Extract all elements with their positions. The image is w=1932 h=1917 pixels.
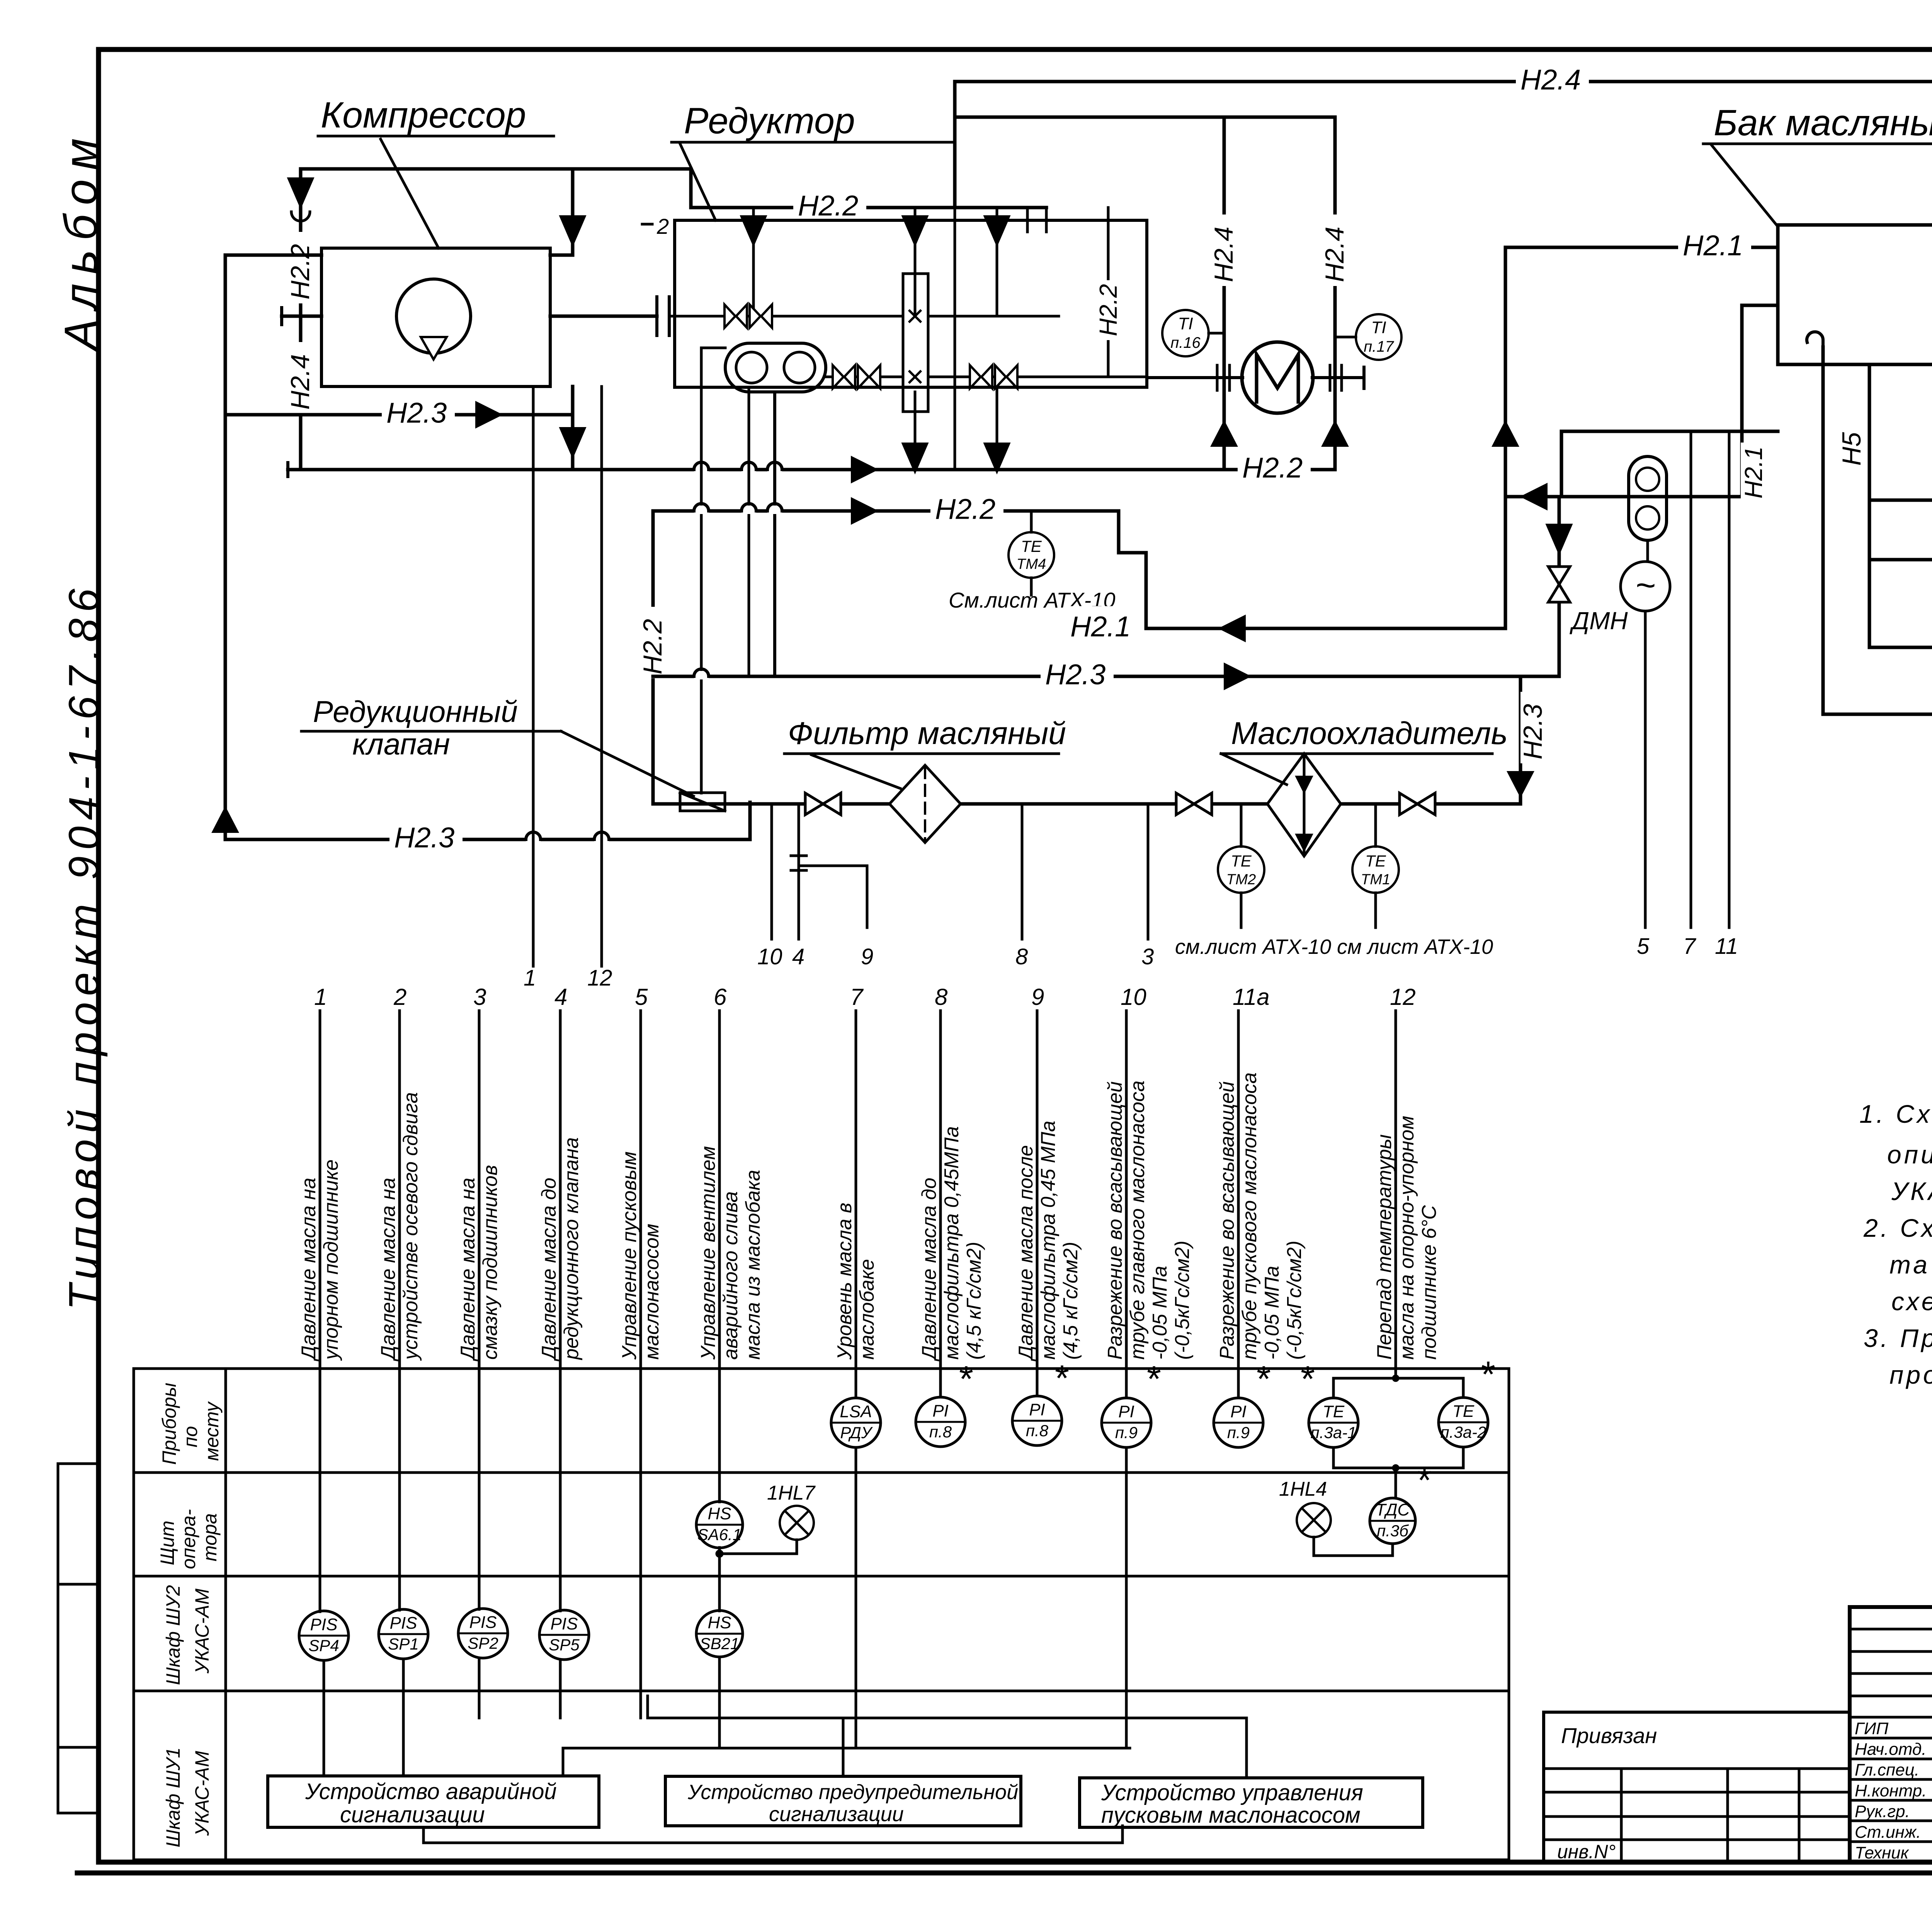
- lamp 1HL4: [1297, 1503, 1331, 1537]
- svg-text:Шкаф ШУ2: Шкаф ШУ2: [162, 1585, 184, 1685]
- label H2.3 rotated drop: [1518, 692, 1548, 763]
- svg-text:Н2.2: Н2.2: [798, 190, 858, 222]
- wire reduction valve pilot line: [700, 348, 703, 793]
- flow arrow up on left return riser: [213, 809, 237, 832]
- svg-text:Типовой проект 904-1-67.86: Типовой проект 904-1-67.86: [60, 582, 108, 1310]
- pipe H2.2 long line under machines: [288, 468, 1335, 472]
- svg-text:5: 5: [635, 984, 648, 1010]
- svg-text:см лист АТХ-10: см лист АТХ-10: [1337, 935, 1493, 958]
- svg-text:Н5: Н5: [1837, 432, 1866, 466]
- svg-text:пусковым маслонасосом: пусковым маслонасосом: [1101, 1803, 1361, 1828]
- svg-text:LSA: LSA: [840, 1402, 872, 1421]
- column 10 description line 1: [1104, 1081, 1126, 1360]
- leader Фильтр масляный: [811, 755, 900, 788]
- margin text Типовой проект 904-1-67.86: [60, 582, 108, 1310]
- lamp 1HL7: [780, 1506, 814, 1540]
- column 12 description line 1: [1373, 1134, 1396, 1360]
- column 6 description line 3: [742, 1170, 764, 1360]
- svg-text:SВ21: SВ21: [700, 1634, 740, 1653]
- svg-text:п.8: п.8: [1026, 1422, 1049, 1440]
- signal drop 10: [770, 804, 773, 939]
- svg-text:(-0,5кГс/см2): (-0,5кГс/см2): [1283, 1241, 1306, 1360]
- signal column wire x2915: [1125, 1011, 1128, 1398]
- leader Бак масляный: [1712, 145, 1777, 226]
- pipe H5 main: [1869, 558, 1932, 562]
- svg-text:Давление масла на: Давление масла на: [377, 1178, 400, 1362]
- svg-text:3: 3: [473, 984, 486, 1010]
- svg-text:Н2.4: Н2.4: [1209, 226, 1238, 282]
- flow arrow H2.3 header: [1225, 664, 1249, 688]
- svg-text:п.16: п.16: [1170, 334, 1201, 351]
- instrument PI p.9 (2): [1214, 1398, 1263, 1447]
- title block signature row: [1850, 1758, 1932, 1760]
- svg-text:4: 4: [792, 944, 804, 969]
- svg-text:Давление масла после: Давление масла после: [1015, 1145, 1037, 1362]
- pipe H2.3 from left loop: [225, 413, 573, 417]
- svg-text:Н2.3: Н2.3: [394, 822, 454, 854]
- frame bottom double line: [77, 1871, 1932, 1876]
- column 12 description line 3: [1418, 1205, 1440, 1360]
- wire from suction to tank line: [1560, 431, 1563, 497]
- svg-text:Устройство управления: Устройство управления: [1101, 1780, 1363, 1805]
- svg-text:маслофильтра 0,45 МПа: маслофильтра 0,45 МПа: [1037, 1121, 1060, 1360]
- svg-text:Н2.2: Н2.2: [1094, 284, 1122, 336]
- title block signature row: [1850, 1716, 1932, 1719]
- pipe stub into tank lower: [1742, 304, 1778, 307]
- svg-text:Нач.отд.: Нач.отд.: [1855, 1740, 1926, 1759]
- svg-text:УКАС-АМ: УКАС-АМ: [191, 1588, 213, 1674]
- svg-text:*: *: [1147, 1359, 1161, 1399]
- svg-text:маслофильтра 0,45МПа: маслофильтра 0,45МПа: [940, 1126, 963, 1360]
- svg-text:сигнализации: сигнализации: [340, 1802, 485, 1827]
- flow arrow H2.1 riser: [1493, 422, 1517, 446]
- left margin small boxes: [58, 1464, 99, 1584]
- cooler internal arrow 2: [1297, 835, 1311, 850]
- svg-text:*: *: [1417, 1460, 1432, 1501]
- signal column wire x1862: [718, 1011, 721, 1502]
- svg-text:Альбом: Альбом: [55, 129, 107, 352]
- motor shaft: [1147, 376, 1243, 379]
- table right edge: [1508, 1369, 1510, 1860]
- svg-text:Маслоохладитель: Маслоохладитель: [1231, 716, 1508, 751]
- svg-text:12: 12: [587, 965, 612, 991]
- label H2.2 rotated drop: [638, 607, 668, 678]
- instrument TE TM4: [1030, 511, 1033, 532]
- svg-text:Устройство аварийной: Устройство аварийной: [305, 1779, 557, 1804]
- underline Фильтр масляный: [784, 752, 1059, 755]
- junction on column 12: [1392, 1375, 1399, 1382]
- check valve reducer drain 2: [985, 444, 1009, 472]
- svg-text:та N1, для компрессорных аг: та N1, для компрессорных агрегатов N2 ..…: [1889, 1250, 1932, 1279]
- box устройство предупредительной сигнализации: [665, 1776, 1021, 1826]
- svg-text:*: *: [1055, 1358, 1069, 1399]
- column 5 description line 1: [618, 1151, 641, 1360]
- svg-text:-0,05 МПа: -0,05 МПа: [1149, 1266, 1171, 1360]
- svg-text:Н2.1: Н2.1: [1683, 230, 1743, 262]
- table left edge: [133, 1369, 135, 1860]
- label H2.2 reducer inlet: [793, 185, 866, 215]
- column 1 description line 2: [320, 1159, 342, 1361]
- compressor shaft: [282, 315, 321, 318]
- coupling: [655, 297, 658, 335]
- wire H2.3 drop to cooler outlet: [1519, 676, 1522, 804]
- table row line y3810: [134, 1471, 1509, 1474]
- table row line y4375: [134, 1690, 1509, 1692]
- svg-text:Фильтр масляный: Фильтр масляный: [788, 716, 1066, 751]
- reduction valve: [680, 793, 725, 811]
- signal column wire x1450: [559, 1011, 562, 1611]
- wire bearing riser right: [1333, 117, 1337, 470]
- svg-text:ТЕ: ТЕ: [1323, 1402, 1345, 1421]
- svg-text:3. Приборы отмеченные* заказы: 3. Приборы отмеченные* заказываются по д…: [1864, 1324, 1932, 1352]
- column 9 description line 2: [1037, 1121, 1060, 1360]
- svg-text:Давление масла до: Давление масла до: [538, 1178, 560, 1362]
- svg-text:схема аналогична.: схема аналогична.: [1891, 1287, 1932, 1316]
- compressor pump circle: [396, 279, 471, 353]
- check valve reducer top tap x2580: [985, 216, 1009, 244]
- column 8 description line 2: [940, 1126, 963, 1360]
- svg-text:5: 5: [1637, 934, 1650, 959]
- svg-text:см.лист АТХ-10: см.лист АТХ-10: [1175, 935, 1331, 958]
- svg-text:(4,5 кГс/см2): (4,5 кГс/см2): [963, 1242, 985, 1360]
- flow arrow up right bearing riser: [1323, 422, 1347, 446]
- label H2.3 return: [389, 817, 463, 847]
- svg-text:Давление масла на: Давление масла на: [298, 1178, 320, 1362]
- label H2.4 rotated on riser: [286, 342, 315, 414]
- label H2.1 tank stub: [1678, 225, 1751, 255]
- svg-text:1НL4: 1НL4: [1279, 1478, 1327, 1500]
- flow arrow suction line: [1522, 485, 1546, 509]
- signal column wire x3205: [1237, 1011, 1240, 1398]
- valve before filter stage2: [1176, 793, 1194, 815]
- underline Редуктор: [672, 141, 952, 144]
- svg-text:РI: РI: [1118, 1402, 1134, 1421]
- box устройство аварийной сигнализации: [268, 1776, 599, 1827]
- instrument HS/SA6.1: [696, 1502, 743, 1548]
- reducer body: [675, 220, 1147, 387]
- signal column wire x1658: [639, 1011, 642, 1718]
- pipe H5 short loop: [1870, 499, 1932, 502]
- svg-text:Н2.3: Н2.3: [386, 397, 447, 429]
- svg-text:п.3а-1: п.3а-1: [1311, 1423, 1357, 1442]
- signal drop 8: [1021, 804, 1024, 939]
- svg-text:*: *: [1257, 1359, 1271, 1399]
- svg-text:ГИП: ГИП: [1855, 1719, 1888, 1738]
- svg-text:п.3б: п.3б: [1377, 1522, 1409, 1540]
- check valve reducer drain 1: [903, 444, 927, 472]
- pipe H2.5: [1823, 713, 1932, 716]
- svg-text:Устройство предупредительной: Устройство предупредительной: [687, 1781, 1018, 1804]
- instrument PIS/SP5: [539, 1610, 589, 1660]
- pipe H2.3 return bottom: [225, 838, 750, 841]
- svg-text:РI: РI: [1029, 1400, 1045, 1419]
- leader Маслоохладитель: [1221, 754, 1287, 785]
- svg-text:SА6.1: SА6.1: [697, 1525, 742, 1544]
- wire to TDS: [1395, 1468, 1397, 1498]
- instrument TDS p.3b: [1370, 1498, 1415, 1544]
- pipe H2.1 header: [1146, 627, 1505, 630]
- svg-text:ТМ2: ТМ2: [1226, 872, 1256, 888]
- signal drop 12 (осевой сдвиг): [600, 386, 603, 966]
- column 2 description line 2: [400, 1092, 422, 1361]
- signal drop 11: [1728, 431, 1731, 928]
- instrument TI p.16: [1162, 310, 1209, 356]
- svg-text:-0,05 МПа: -0,05 МПа: [1261, 1266, 1283, 1360]
- svg-text:Рук.гр.: Рук.гр.: [1855, 1802, 1910, 1821]
- svg-text:устройстве осевого сдвига: устройстве осевого сдвига: [400, 1092, 422, 1361]
- wire H2.2 to H2.1 step: [1117, 511, 1121, 553]
- svg-text:Шкаф ШУ1: Шкаф ШУ1: [162, 1747, 184, 1847]
- instrument PIS/SP4: [299, 1611, 349, 1660]
- svg-text:маслобаке: маслобаке: [856, 1259, 878, 1360]
- pipe H2.2 compressor top: [301, 167, 691, 171]
- compressor body: [321, 248, 550, 386]
- signal column wire x2215: [855, 1011, 857, 1398]
- signal drop 3: [1147, 804, 1150, 939]
- check valve compressor right tap: [561, 216, 585, 244]
- svg-text:Управление вентилем: Управление вентилем: [697, 1146, 719, 1360]
- valve after reduction valve: [805, 793, 823, 815]
- svg-text:9: 9: [861, 944, 873, 969]
- wire bearing riser left: [1223, 117, 1226, 470]
- gear cylinder: [903, 274, 928, 412]
- svg-text:SР2: SР2: [468, 1634, 498, 1652]
- svg-text:ТЕ: ТЕ: [1365, 852, 1386, 870]
- table row line y4078: [134, 1575, 1509, 1578]
- svg-text:3: 3: [1141, 944, 1154, 969]
- svg-text:Ст.инж.: Ст.инж.: [1855, 1823, 1921, 1842]
- title block: [1850, 1607, 1932, 1862]
- wire lube supply through reducer: [954, 208, 956, 470]
- pipe oil filter line: [653, 802, 1520, 806]
- oil tank body: [1778, 225, 1932, 364]
- wire SP1 to box1: [402, 1659, 405, 1776]
- wire tank bottom to H5/H6: [1868, 364, 1871, 647]
- signal drop 7: [1690, 431, 1692, 928]
- svg-text:Давление масла до: Давление масла до: [918, 1178, 940, 1362]
- oil cooler: [1267, 754, 1341, 856]
- svg-text:10: 10: [1121, 984, 1146, 1010]
- wire reducer drain to H2.3: [748, 387, 750, 676]
- svg-text:п.8: п.8: [929, 1423, 952, 1441]
- svg-text:Н2.2: Н2.2: [638, 619, 667, 674]
- leader Компрессор: [381, 139, 439, 248]
- svg-text:РI: РI: [932, 1401, 949, 1420]
- column 1 description line 1: [298, 1178, 320, 1362]
- svg-text:УКАС-АМ: УКАС-АМ: [191, 1751, 213, 1836]
- svg-text:Управление пусковым: Управление пусковым: [618, 1151, 641, 1360]
- svg-text:2: 2: [393, 984, 406, 1010]
- check valve reducer top tap x1950: [742, 216, 765, 244]
- signal column wire x1240: [478, 1658, 481, 1718]
- svg-text:п.9: п.9: [1227, 1423, 1250, 1442]
- wire H2.1 riser right: [1740, 305, 1744, 497]
- svg-text:маслонасосом: маслонасосом: [641, 1224, 663, 1360]
- svg-text:Приборы: Приборы: [158, 1383, 180, 1465]
- wire H2.2 drop column: [651, 511, 655, 804]
- svg-text:ДМН: ДМН: [1570, 607, 1628, 635]
- column 7 description line 2: [856, 1259, 878, 1360]
- label H2.1 header: [1066, 606, 1139, 636]
- column 9 description line 1: [1015, 1145, 1037, 1362]
- table row line y3541: [134, 1367, 1509, 1370]
- column 11а description line 1: [1216, 1081, 1238, 1360]
- svg-text:редукционного клапана: редукционного клапана: [560, 1137, 583, 1360]
- check valve DMN branch: [1547, 525, 1571, 553]
- flow arrow down H2.3 drop: [1509, 772, 1532, 795]
- instrument LSA/RDU: [831, 1398, 881, 1447]
- junction TE pair bottom: [1392, 1464, 1399, 1471]
- underline Маслоохладитель: [1221, 752, 1492, 755]
- instrument DMN pressure sensor: [1621, 562, 1670, 611]
- signal column wire x2215: [855, 1447, 857, 1748]
- svg-text:Бак масляный: Бак масляный: [1714, 102, 1932, 143]
- wire box1 bottom link: [422, 1827, 425, 1843]
- svg-text:Н2.2: Н2.2: [935, 493, 995, 525]
- svg-text:4: 4: [554, 984, 567, 1010]
- flow arrow H2.2 header: [852, 499, 876, 523]
- column 11а description line 3: [1261, 1266, 1283, 1360]
- leader Редуктор: [680, 144, 716, 220]
- reducer lower shaft: [826, 376, 903, 378]
- label H2.3 header: [1041, 654, 1114, 684]
- check valve on compressor left riser: [289, 179, 313, 206]
- column 8 description line 3: [963, 1242, 985, 1360]
- svg-text:ТМ4: ТМ4: [1017, 556, 1046, 572]
- svg-text:SР5: SР5: [549, 1636, 580, 1654]
- pipe H2.3 header: [653, 675, 1559, 678]
- box устройство управления пусковым маслонасосом: [1080, 1778, 1423, 1827]
- oil filter: [889, 765, 961, 843]
- svg-text:Щит: Щит: [156, 1520, 178, 1565]
- instrument TE TM1: [1374, 804, 1377, 846]
- privyazan box: [1544, 1712, 1850, 1862]
- column 5 description line 2: [641, 1224, 663, 1360]
- pipe tank lower connection: [1561, 430, 1778, 433]
- margin text Альбом: [55, 129, 107, 352]
- svg-text:2: 2: [656, 214, 669, 238]
- svg-text:*: *: [1481, 1354, 1495, 1395]
- svg-text:п.3а-2: п.3а-2: [1440, 1423, 1486, 1441]
- reducer upper shaft: [669, 315, 903, 318]
- svg-text:~: ~: [1635, 566, 1656, 605]
- motor M: [1242, 342, 1313, 413]
- table row line y4812: [134, 1859, 1509, 1861]
- svg-text:7: 7: [850, 984, 864, 1010]
- check valve reducer top tap x2368: [903, 216, 927, 244]
- wire main oil pump suction: [773, 392, 776, 676]
- svg-text:ТМ1: ТМ1: [1361, 872, 1390, 888]
- instrument PIS/SP1: [379, 1609, 428, 1659]
- reducer bottom drain taps: [914, 392, 917, 470]
- wire DMN suction branch: [1558, 497, 1561, 676]
- pipe starting pump suction line: [1505, 495, 1742, 499]
- column 2 description line 1: [377, 1178, 400, 1362]
- signal drop 4 with gauge tap: [798, 804, 800, 939]
- svg-text:8: 8: [1015, 944, 1028, 969]
- reducer top lube taps with check valves: [752, 208, 755, 316]
- gear pairs lower: [833, 365, 844, 388]
- wire reducer inlet taps into box: [1026, 208, 1029, 232]
- wire left return riser H2.3: [224, 255, 227, 839]
- svg-text:1: 1: [524, 965, 536, 991]
- svg-text:12: 12: [1390, 984, 1416, 1010]
- svg-text:НS: НS: [707, 1504, 731, 1523]
- svg-text:(4,5 кГс/см2): (4,5 кГс/см2): [1060, 1242, 1082, 1360]
- wire to alarm box: [563, 1747, 1130, 1750]
- wire pump to DMN: [1646, 540, 1649, 562]
- svg-text:Перепад температуры: Перепад температуры: [1373, 1134, 1396, 1360]
- pipe H2.4 feed to bearings over motor: [955, 116, 1335, 119]
- svg-text:подшипнике 6°С: подшипнике 6°С: [1418, 1205, 1440, 1360]
- svg-text:РДУ: РДУ: [840, 1423, 873, 1442]
- wire compressor bottom tap: [571, 386, 575, 470]
- column 6 description line 2: [719, 1191, 742, 1360]
- instrument TE p.3a-1: [1309, 1398, 1358, 1447]
- title block signature row: [1850, 1778, 1932, 1781]
- signal column wire x3612: [1395, 1011, 1397, 1378]
- column 12 description line 2: [1396, 1116, 1418, 1360]
- instrument PIS/SP2: [458, 1609, 508, 1658]
- svg-text:8: 8: [935, 984, 948, 1010]
- signal column wire x1862: [718, 1548, 721, 1611]
- wire compressor right tap: [571, 169, 575, 255]
- column 11а description line 2: [1238, 1073, 1261, 1360]
- wire H2.4 riser to reducer: [953, 82, 957, 208]
- column 6 description line 1: [697, 1146, 719, 1360]
- svg-text:6: 6: [714, 984, 727, 1010]
- svg-text:смазку подшипников: смазку подшипников: [479, 1165, 502, 1360]
- svg-text:Н.контр.: Н.контр.: [1855, 1781, 1927, 1800]
- svg-text:SР4: SР4: [308, 1636, 339, 1655]
- underline Компрессор: [318, 135, 554, 138]
- column 3 description line 1: [457, 1178, 479, 1362]
- svg-text:РIS: РIS: [310, 1615, 338, 1634]
- svg-text:ТЕ: ТЕ: [1021, 537, 1042, 555]
- signal column wire x1034: [398, 1011, 401, 1610]
- svg-text:масла на опорно-упорном: масла на опорно-упорном: [1396, 1116, 1418, 1360]
- svg-text:масла из маслобака: масла из маслобака: [742, 1170, 764, 1360]
- svg-text:сигнализации: сигнализации: [769, 1803, 904, 1826]
- label H2.4 left bearing riser: [1209, 215, 1239, 286]
- signal drop 1 (упорный подшипник): [532, 386, 535, 966]
- signal column wire x828: [319, 1011, 321, 1612]
- label H2.2 under motor: [1238, 447, 1311, 477]
- signal column wire x2684: [1036, 1011, 1039, 1396]
- signal column wire x2915: [1125, 1447, 1128, 1748]
- pipe H2.2 header: [653, 509, 1119, 513]
- svg-text:НS: НS: [707, 1613, 731, 1632]
- svg-text:Давление масла на: Давление масла на: [457, 1178, 479, 1362]
- column 10 description line 4: [1171, 1241, 1194, 1360]
- pipe H6: [1869, 646, 1932, 649]
- svg-text:11: 11: [1715, 934, 1738, 959]
- label H2.4 top: [1516, 59, 1589, 89]
- svg-text:ТДС: ТДС: [1376, 1500, 1410, 1519]
- column 11а description line 4: [1283, 1241, 1306, 1360]
- svg-text:Н2.1: Н2.1: [1740, 446, 1767, 499]
- check valve compressor bottom tap: [561, 428, 585, 456]
- label H2.4 right bearing riser: [1320, 215, 1350, 286]
- svg-text:РI: РI: [1230, 1402, 1247, 1421]
- wire to pump control box: [648, 1717, 1247, 1720]
- svg-text:инв.N°: инв.N°: [1557, 1841, 1616, 1863]
- svg-text:Н2.4: Н2.4: [1320, 226, 1349, 282]
- instrument PI p.9 (1): [1102, 1398, 1151, 1447]
- column 8 description line 1: [918, 1178, 940, 1362]
- svg-text:1НL7: 1НL7: [767, 1482, 816, 1504]
- svg-text:*: *: [1301, 1359, 1315, 1399]
